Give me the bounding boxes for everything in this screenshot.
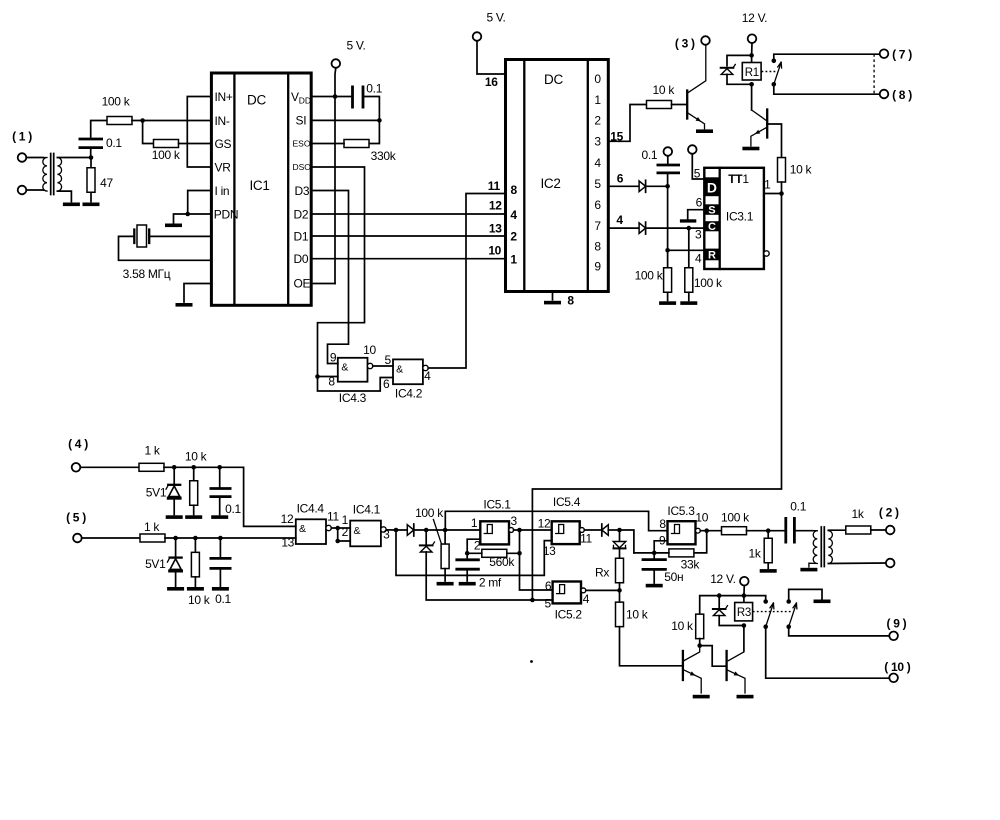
svg-text:6: 6 bbox=[383, 377, 390, 391]
node junction bbox=[377, 118, 382, 123]
node junction bbox=[697, 643, 702, 648]
svg-text:DC: DC bbox=[247, 93, 266, 108]
svg-text:2: 2 bbox=[342, 525, 349, 539]
svg-text:IC5.2: IC5.2 bbox=[555, 608, 583, 622]
svg-text:Rx: Rx bbox=[595, 566, 609, 580]
IC5.3 output bubble bbox=[696, 528, 701, 533]
svg-text:2: 2 bbox=[474, 539, 481, 553]
wire D0 bus bbox=[311, 258, 505, 260]
transistor T6 base bar bbox=[725, 651, 727, 680]
wire R3 to T6 collector bbox=[743, 626, 745, 651]
wire bbox=[143, 121, 154, 144]
wire bbox=[175, 573, 177, 587]
svg-text:DSO: DSO bbox=[293, 162, 312, 172]
wire 5V rail down to OE bbox=[334, 68, 337, 284]
IC5.2 output bubble bbox=[581, 588, 586, 593]
wire K3 to terminal (9) bbox=[789, 627, 890, 636]
svg-text:100 k: 100 k bbox=[635, 269, 664, 283]
wire bbox=[794, 530, 812, 532]
wire resistor drop bbox=[444, 530, 446, 544]
wire bbox=[219, 568, 221, 586]
svg-text:( 4 ): ( 4 ) bbox=[68, 437, 88, 451]
wire T5 collector node to T6 base bbox=[700, 646, 727, 667]
IC1 inner lines bbox=[234, 73, 288, 305]
D pin black square bbox=[704, 177, 719, 196]
stray mark bbox=[530, 660, 533, 663]
diode VD3 bbox=[407, 524, 414, 536]
wire bbox=[608, 529, 619, 531]
svg-text:IC2: IC2 bbox=[540, 176, 560, 191]
switch K1 lower contact bbox=[772, 82, 777, 87]
schmitt trigger IC5.2 box bbox=[553, 582, 581, 604]
transistor T5 emitter bbox=[683, 670, 701, 693]
svg-text:IC5.3: IC5.3 bbox=[667, 504, 695, 518]
transistor T4 base bar bbox=[766, 110, 768, 138]
wire left 100k drop bbox=[667, 186, 669, 267]
resistor 100k output bbox=[722, 527, 747, 535]
svg-text:3.58 МГц: 3.58 МГц bbox=[123, 267, 171, 281]
node junction bbox=[779, 191, 784, 196]
node junction bbox=[217, 465, 222, 470]
svg-text:5: 5 bbox=[594, 177, 601, 191]
wire bbox=[219, 497, 221, 515]
wire PDN bbox=[174, 214, 212, 223]
resistor 330k bbox=[344, 140, 369, 148]
svg-text:5 V.: 5 V. bbox=[486, 11, 505, 25]
wire bbox=[373, 365, 393, 367]
S pin black square bbox=[704, 204, 719, 215]
resistor 1k output bbox=[846, 526, 871, 534]
schmitt symbol IC5.1 bbox=[484, 525, 492, 534]
wire bbox=[444, 569, 446, 581]
wire bbox=[194, 577, 196, 586]
svg-text:IC1: IC1 bbox=[249, 178, 269, 193]
ground bbox=[211, 515, 228, 519]
wire bbox=[747, 530, 786, 532]
ground bbox=[760, 569, 777, 573]
wire 33k feedback bbox=[694, 531, 707, 553]
svg-text:I in: I in bbox=[215, 184, 230, 198]
NAND gate IC4.2 bbox=[393, 359, 423, 384]
ground bbox=[659, 301, 676, 305]
transistor T3 base bar bbox=[686, 91, 688, 119]
terminal above D input bbox=[688, 145, 697, 154]
wire bbox=[619, 530, 621, 542]
svg-text:560k: 560k bbox=[489, 555, 515, 569]
flyback diode VD R3 bbox=[713, 606, 728, 616]
crystal plates bbox=[134, 230, 149, 244]
transistor T4 collector bbox=[752, 110, 767, 121]
ground bbox=[185, 515, 202, 519]
svg-text:6: 6 bbox=[545, 579, 552, 593]
ground bbox=[742, 147, 759, 151]
svg-text:OE: OE bbox=[294, 277, 311, 291]
svg-text:D1: D1 bbox=[294, 229, 309, 243]
svg-text:7: 7 bbox=[594, 219, 601, 233]
transistor T3 emitter bbox=[687, 113, 704, 129]
svg-text:12: 12 bbox=[538, 517, 551, 531]
node junction bbox=[687, 226, 692, 231]
NAND gate IC4.1 bbox=[350, 521, 381, 547]
svg-text:10 k: 10 k bbox=[653, 83, 676, 97]
svg-text:IC5.1: IC5.1 bbox=[483, 498, 511, 512]
svg-text:5 V.: 5 V. bbox=[346, 39, 365, 53]
diode VD2 bbox=[639, 222, 646, 234]
resistor 100k timing bbox=[441, 544, 449, 569]
transistor T3 emitter arrow bbox=[696, 117, 701, 122]
wire 12V down bbox=[751, 43, 753, 62]
transistor T3 collector bbox=[687, 45, 706, 93]
switch K3 lower contact bbox=[786, 624, 791, 629]
node junction bbox=[749, 53, 754, 58]
svg-text:50н: 50н bbox=[664, 570, 683, 584]
svg-text:10 k: 10 k bbox=[188, 593, 211, 607]
svg-text:( 9 ): ( 9 ) bbox=[886, 617, 906, 631]
svg-text:PDN: PDN bbox=[214, 208, 238, 222]
flip-flop IC3.1 box bbox=[704, 168, 764, 269]
wire 12V rail left bbox=[700, 596, 744, 615]
svg-text:IC5.4: IC5.4 bbox=[553, 495, 581, 509]
svg-text:1 k: 1 k bbox=[144, 444, 160, 458]
svg-text:IN-: IN- bbox=[215, 114, 230, 128]
gate IC4.1 output bubble bbox=[381, 527, 386, 532]
svg-text:8: 8 bbox=[511, 183, 518, 197]
ground bbox=[212, 587, 229, 591]
transformer T2 core bbox=[821, 527, 824, 567]
resistor 560k bbox=[482, 549, 507, 557]
svg-text:1 k: 1 k bbox=[144, 520, 160, 534]
wire bbox=[149, 235, 211, 237]
wire bbox=[667, 173, 669, 186]
wire VD4 down to IC5.2 pin 5 row bbox=[426, 552, 552, 600]
wire bbox=[767, 563, 769, 569]
wire VDD stub bbox=[311, 96, 352, 98]
transistor T6 emitter bbox=[727, 670, 745, 693]
wire bbox=[619, 548, 621, 558]
wire IC5.1 input 1 bbox=[445, 529, 480, 531]
wire bbox=[173, 467, 175, 484]
svg-text:R1: R1 bbox=[745, 67, 759, 79]
svg-text:R3: R3 bbox=[737, 607, 751, 619]
svg-text:6: 6 bbox=[594, 198, 601, 212]
transistor T4 emitter arrow bbox=[755, 130, 761, 134]
svg-text:10 k: 10 k bbox=[626, 608, 649, 622]
relay R1 box bbox=[742, 63, 761, 81]
transistor T6 collector bbox=[728, 652, 744, 661]
wire bbox=[828, 562, 886, 565]
wire TT1 output pin 1 bbox=[764, 193, 782, 195]
wire right 100k drop bbox=[688, 228, 690, 268]
capacitor 0.1 row4 bbox=[210, 489, 232, 497]
svg-text:0: 0 bbox=[594, 72, 601, 86]
terminal (5) bbox=[73, 534, 82, 543]
ground bbox=[176, 303, 193, 307]
svg-text:S: S bbox=[708, 204, 715, 216]
wire bbox=[193, 467, 195, 481]
svg-text:2 mf: 2 mf bbox=[479, 576, 502, 590]
wire bbox=[767, 531, 769, 539]
svg-text:8: 8 bbox=[567, 294, 574, 308]
wire bbox=[414, 529, 445, 531]
wire flyback drop bbox=[718, 596, 720, 608]
wire IC5.3 output bbox=[700, 530, 722, 532]
wire K2 to terminal (10) bbox=[766, 627, 890, 679]
capacitor 2mf bbox=[455, 560, 479, 569]
wire to flyback diode bbox=[727, 55, 752, 65]
wire IC1 ground stub bbox=[184, 284, 211, 303]
IC5.1 output bubble bbox=[509, 528, 514, 533]
terminal 12V lower bbox=[740, 577, 749, 586]
C pin black square bbox=[704, 221, 719, 231]
wire bbox=[425, 530, 427, 545]
switch K2 lever bbox=[766, 603, 774, 626]
svg-text:2: 2 bbox=[594, 114, 601, 128]
node junction bbox=[652, 551, 657, 556]
svg-text:TT1: TT1 bbox=[728, 172, 749, 186]
wire bbox=[667, 156, 669, 165]
wire bbox=[688, 292, 690, 300]
switch K3 lever arrow bbox=[793, 603, 797, 609]
svg-text:5: 5 bbox=[694, 167, 701, 181]
resistor 33k bbox=[669, 549, 694, 557]
svg-text:4: 4 bbox=[616, 213, 623, 227]
IC5.4 output bubble bbox=[580, 528, 585, 533]
svg-text:4: 4 bbox=[695, 252, 702, 266]
resistor 100k GS bbox=[154, 140, 179, 148]
transformer T2 secondary winding bbox=[828, 531, 832, 564]
svg-text:IC3.1: IC3.1 bbox=[726, 210, 754, 224]
relay R3 box bbox=[735, 603, 753, 621]
wire bbox=[80, 466, 139, 468]
wire IC5.3 input 9 bbox=[654, 541, 667, 553]
flyback diode VD R1 bbox=[721, 64, 736, 74]
wire IN+ to VR link bbox=[187, 97, 211, 168]
wire ESO stub bbox=[311, 143, 344, 145]
node junction bbox=[766, 528, 771, 533]
svg-text:0.1: 0.1 bbox=[215, 592, 231, 606]
gate IC4.4 output bubble bbox=[326, 525, 331, 530]
wire pin 16 bbox=[477, 41, 506, 74]
wire gate IC4.2 output to IC2 pin 11 bbox=[428, 194, 505, 369]
ground bbox=[459, 582, 476, 586]
transformer T1 core bbox=[51, 154, 54, 195]
svg-text:3: 3 bbox=[594, 135, 601, 149]
svg-text:10: 10 bbox=[363, 343, 376, 357]
zener 5V1 row5 bbox=[167, 558, 183, 573]
svg-text:D: D bbox=[707, 179, 717, 195]
wire TT1 output long net down to bottom section bbox=[532, 194, 781, 601]
wire D3 net to gate input 9 bbox=[311, 191, 348, 364]
svg-text:3: 3 bbox=[695, 228, 702, 242]
node junction bbox=[89, 155, 94, 160]
wire 12V bus bbox=[743, 586, 745, 603]
svg-text:16: 16 bbox=[485, 75, 498, 89]
schmitt trigger IC5.4 box bbox=[552, 521, 580, 544]
svg-text:D3: D3 bbox=[295, 184, 310, 198]
capacitor 0.1 input bbox=[79, 139, 104, 148]
svg-text:0.1: 0.1 bbox=[642, 148, 658, 162]
transistor T5 collector bbox=[683, 646, 699, 661]
node junction bbox=[185, 212, 190, 217]
svg-text:12: 12 bbox=[281, 512, 294, 526]
wire D input pin 5 bbox=[692, 154, 704, 179]
diode VD1 bbox=[639, 180, 646, 192]
ground bbox=[437, 582, 454, 586]
resistor 10k T4 base bbox=[778, 158, 786, 183]
node junction bbox=[530, 598, 535, 603]
R pin black square bbox=[704, 249, 719, 261]
svg-text:6: 6 bbox=[696, 196, 703, 210]
svg-text:13: 13 bbox=[543, 544, 556, 558]
flip-flop inner line bbox=[719, 168, 721, 269]
wire bbox=[369, 120, 379, 143]
node junction bbox=[704, 528, 709, 533]
svg-text:SI: SI bbox=[296, 114, 307, 128]
wire IC2 pin 4 row bbox=[608, 227, 639, 229]
wire feedback and to IC5.2 pin 6 bbox=[520, 530, 553, 590]
resistor 10k below Rx bbox=[616, 602, 624, 627]
terminal (10) bbox=[889, 674, 898, 683]
wire DSO net to gates bbox=[311, 167, 393, 391]
node junction bbox=[218, 536, 223, 541]
svg-text:1k: 1k bbox=[748, 547, 761, 561]
wire IC4.4 out to IC4.1 inputs bbox=[331, 528, 350, 541]
node junction bbox=[333, 94, 338, 99]
svg-text:&: & bbox=[299, 523, 306, 535]
node junction bbox=[617, 588, 622, 593]
wire I-in bbox=[188, 191, 212, 215]
schmitt trigger IC5.1 box bbox=[480, 521, 509, 544]
svg-text:33k: 33k bbox=[681, 558, 701, 572]
svg-text:100 k: 100 k bbox=[721, 511, 750, 525]
wire IC5.2 output bbox=[586, 589, 620, 591]
svg-text:5V1: 5V1 bbox=[145, 557, 166, 571]
dotted actuation link R3 bbox=[753, 611, 791, 613]
switch K3 lever bbox=[789, 603, 797, 626]
svg-text:IC4.3: IC4.3 bbox=[339, 391, 367, 405]
svg-text:IC4.4: IC4.4 bbox=[297, 502, 325, 516]
IC2 inner lines bbox=[524, 60, 588, 292]
svg-text:0.1: 0.1 bbox=[106, 136, 122, 150]
terminal (1) lower bbox=[18, 186, 27, 195]
ground bbox=[83, 203, 100, 207]
wire C input row bbox=[646, 227, 705, 229]
node junction bbox=[424, 528, 429, 533]
resistor 10k T5 collector bbox=[696, 614, 704, 639]
node junction bbox=[335, 526, 340, 531]
terminal (2) lower bbox=[886, 559, 895, 568]
transistor T5 base bar bbox=[682, 651, 684, 680]
diode VD4 bbox=[420, 542, 435, 552]
terminal (1) upper bbox=[18, 153, 27, 162]
inverse output bubble bbox=[764, 251, 769, 256]
capacitor 0.1 TT1 bbox=[657, 165, 681, 173]
ground bbox=[544, 301, 561, 305]
svg-text:330k: 330k bbox=[371, 149, 397, 163]
transformer T1 primary winding bbox=[43, 158, 47, 192]
wire pin 15 to 10k bbox=[608, 105, 646, 142]
wire bbox=[219, 538, 221, 558]
ground bbox=[166, 515, 183, 519]
diode VD5 pointing left bbox=[602, 524, 609, 536]
node junction bbox=[517, 551, 522, 556]
svg-text:13: 13 bbox=[281, 536, 294, 550]
wire gate input 8 stub bbox=[318, 376, 338, 378]
svg-text:( 7 ): ( 7 ) bbox=[892, 48, 912, 62]
svg-text:( 10 ): ( 10 ) bbox=[884, 660, 911, 674]
svg-text:D2: D2 bbox=[294, 207, 309, 221]
resistor 1k input 5 bbox=[140, 534, 165, 542]
resistor 10k row4 bbox=[190, 481, 198, 506]
svg-text:10 k: 10 k bbox=[185, 450, 208, 464]
wire bbox=[91, 121, 107, 158]
ground bbox=[814, 600, 831, 604]
wire IC4.1 output lower branch to IC5.4 pin 13 bbox=[396, 530, 552, 575]
switch K1 upper contact bbox=[772, 59, 777, 64]
svg-text:( 5 ): ( 5 ) bbox=[66, 511, 86, 525]
ground bbox=[680, 301, 697, 305]
resistor 10k row5 bbox=[191, 552, 199, 577]
svg-text:8: 8 bbox=[328, 375, 335, 389]
node junction bbox=[717, 593, 722, 598]
resistor 1k shunt bbox=[764, 538, 772, 563]
svg-text:9: 9 bbox=[330, 351, 337, 365]
wire bbox=[173, 500, 175, 515]
node junction bbox=[749, 82, 754, 87]
zener VD6 bbox=[613, 542, 626, 549]
wire bbox=[871, 529, 886, 531]
IC1 box bbox=[211, 73, 311, 305]
svg-text:100 k: 100 k bbox=[694, 276, 723, 290]
capacitor 0.1 VDD bbox=[353, 86, 364, 109]
wire T4 base to 10k bbox=[767, 124, 781, 158]
svg-text:3: 3 bbox=[511, 514, 518, 528]
wire bbox=[219, 467, 221, 488]
terminal (4) bbox=[72, 463, 81, 472]
switch K1 lever bbox=[774, 63, 781, 85]
wire bbox=[119, 236, 212, 260]
transistor T6 emitter arrow bbox=[734, 671, 740, 675]
wire bbox=[82, 537, 141, 539]
ground bbox=[63, 203, 80, 207]
switch K3 upper contact bbox=[786, 599, 791, 604]
node junction bbox=[191, 465, 196, 470]
wire bbox=[194, 538, 196, 552]
wire bbox=[57, 191, 71, 201]
terminal above cap bbox=[664, 147, 673, 156]
wire bbox=[828, 529, 846, 531]
svg-text:9: 9 bbox=[594, 260, 601, 274]
svg-text:1: 1 bbox=[764, 178, 771, 192]
wire OE stub bbox=[311, 283, 335, 285]
svg-text:( 1 ): ( 1 ) bbox=[12, 130, 32, 144]
wire bbox=[619, 583, 621, 603]
node junction bbox=[517, 528, 522, 533]
schmitt trigger IC5.3 box bbox=[668, 521, 696, 544]
node junction bbox=[140, 118, 145, 123]
resistor 1k input 4 bbox=[139, 463, 164, 471]
wire bbox=[26, 157, 43, 159]
svg-text:0.1: 0.1 bbox=[225, 502, 241, 516]
svg-text:IC4.2: IC4.2 bbox=[395, 387, 423, 401]
wire 50n node row bbox=[634, 552, 669, 554]
wire bbox=[672, 104, 688, 106]
svg-text:ESO: ESO bbox=[293, 139, 311, 149]
capacitor 0.1 row5 bbox=[210, 558, 232, 568]
switch K1 lever arrow bbox=[778, 62, 782, 68]
svg-text:1: 1 bbox=[510, 253, 517, 267]
svg-text:5: 5 bbox=[385, 353, 392, 367]
